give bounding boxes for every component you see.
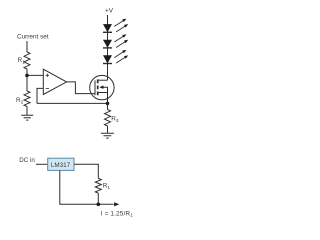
- svg-text:+V: +V: [105, 8, 114, 15]
- resistor R2: [24, 91, 30, 107]
- wire: R2 bottom to ground: [26, 107, 28, 116]
- svg-text:R2: R2: [16, 97, 24, 105]
- wire: LM317 adj down and along bottom: [60, 170, 114, 204]
- MOSFET body arrow line: [103, 87, 108, 92]
- svg-text:LM317: LM317: [51, 162, 71, 169]
- wire: +V rail down through LEDs to MOSFET drain: [107, 15, 109, 80]
- LED D3 emission arrows: [114, 52, 125, 63]
- node: junction R1/R2/op-amp: [25, 74, 29, 78]
- MOSFET gate line: [94, 80, 96, 95]
- node: output junction: [97, 203, 101, 207]
- svg-text:DC in: DC in: [19, 157, 35, 164]
- wire: node to R3: [107, 103, 109, 109]
- svg-text:I = 1.25/R1: I = 1.25/R1: [101, 210, 133, 218]
- LED D1 emission arrows: [114, 21, 125, 32]
- svg-text:R3: R3: [111, 116, 119, 124]
- wire: MOSFET source to sense node: [107, 93, 109, 104]
- transistor Q1 MOSFET body circle: [90, 75, 114, 99]
- op-amp minus input marking: [46, 87, 49, 89]
- LED D1: [103, 24, 112, 32]
- resistor R1 (upper): [24, 52, 30, 69]
- wire: node to op-amp non-inverting input: [27, 74, 43, 76]
- resistor R1 (lower): [95, 178, 101, 193]
- LED D2: [103, 40, 112, 48]
- op-amp U1: [43, 69, 66, 94]
- regulator U2 LM317 box: [48, 158, 74, 170]
- svg-text:R1: R1: [103, 183, 111, 191]
- wire: feedback from source node to inverting input: [37, 102, 108, 104]
- MOSFET drain connection: [99, 79, 108, 81]
- LED D3: [103, 55, 112, 63]
- wire: LM317 out to R1: [74, 164, 98, 178]
- op-amp plus input marking: [46, 74, 49, 77]
- node: source sense junction: [106, 102, 110, 106]
- wire: Current set to R1 top: [26, 41, 28, 52]
- MOSFET body arrow head: [99, 86, 103, 89]
- wire: DC in to LM317: [36, 163, 48, 165]
- ground (under R3): [101, 133, 114, 138]
- ground (left, under R2): [21, 115, 33, 120]
- MOSFET source connection: [99, 92, 108, 94]
- wire: R1 to output node: [97, 193, 99, 204]
- resistor R3: [105, 110, 111, 127]
- wire: R3 to ground: [107, 126, 109, 133]
- svg-text:R1: R1: [18, 57, 26, 65]
- MOSFET channel dashes: [97, 79, 99, 95]
- wire: op-amp inverting input step: [37, 88, 43, 103]
- svg-text:Current set: Current set: [17, 34, 49, 41]
- LED D2 emission arrows: [114, 36, 125, 47]
- wire: R1 bottom through node to R2 top: [26, 69, 28, 91]
- output current arrow head: [114, 202, 119, 206]
- wire: op-amp output to MOSFET gate: [67, 82, 95, 94]
